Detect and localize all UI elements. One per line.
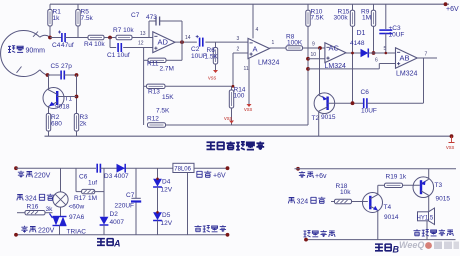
svg-text:1k: 1k: [53, 15, 61, 22]
svg-text:100: 100: [234, 93, 245, 100]
op-amp AB: [396, 48, 418, 68]
svg-text:+6v: +6v: [315, 173, 327, 180]
transistor T2 9015: [314, 93, 335, 114]
wire AD out: [175, 41, 197, 43]
svg-text:10k: 10k: [340, 189, 351, 196]
svg-text:D3 4007: D3 4007: [104, 173, 129, 180]
wire T4 emit down: [377, 211, 379, 240]
resistor R5: [77, 4, 79, 9]
wire: [104, 37, 116, 39]
regulator 78L06: [173, 163, 194, 172]
svg-text:4007: 4007: [110, 219, 125, 226]
wire +6V top rail: [50, 3, 449, 5]
wire speaker down: [426, 221, 428, 240]
wire vss rail mid: [166, 124, 309, 126]
transistor T3 9015: [413, 177, 434, 198]
resistor R14: [231, 86, 233, 90]
wire AB out: [417, 57, 437, 59]
svg-text:6: 6: [375, 58, 378, 64]
antenna loop (90mm): [1, 31, 40, 77]
resistor R6: [215, 42, 217, 47]
wire: [100, 167, 172, 169]
svg-text:C7: C7: [126, 192, 135, 199]
svg-text:LM324: LM324: [258, 60, 280, 67]
svg-text:220V: 220V: [34, 173, 51, 180]
svg-text:300k: 300k: [334, 15, 349, 22]
svg-text:C5: C5: [51, 63, 60, 70]
svg-text:3: 3: [237, 36, 240, 42]
vss below R6: [213, 70, 218, 73]
diode D2 4007: [100, 217, 109, 225]
svg-text:vss: vss: [208, 76, 217, 82]
resistor R18: [331, 201, 335, 203]
capacitor C3: [385, 4, 387, 29]
resistor R13: [147, 84, 166, 88]
svg-text:12: 12: [138, 41, 144, 47]
resistor R4: [88, 35, 104, 39]
svg-text:7: 7: [425, 52, 428, 58]
op-amp AD: [153, 32, 175, 53]
svg-text:AB: AB: [400, 54, 410, 63]
node out+6V: [226, 166, 230, 170]
svg-text:C2: C2: [191, 46, 200, 53]
svg-text:9015: 9015: [436, 196, 451, 203]
wire AB out down: [423, 58, 425, 103]
wire R3col: [76, 75, 78, 114]
resistor R11: [148, 58, 166, 62]
node mains N: [14, 233, 18, 237]
svg-text:9: 9: [312, 42, 315, 48]
resistor R19: [385, 183, 403, 187]
svg-text:WeeQ: WeeQ: [399, 240, 424, 250]
wire to AB-: [368, 52, 395, 54]
svg-text:R19 1k: R19 1k: [386, 174, 407, 181]
resistor R7: [116, 35, 132, 39]
wire AB+ feed: [308, 68, 379, 70]
wire R15 down: [352, 26, 354, 104]
vss below AA: [247, 104, 252, 107]
capacitor C2: [199, 38, 201, 47]
svg-text:AD: AD: [158, 38, 169, 47]
resistor R9: [373, 4, 375, 10]
resistor R12: [148, 123, 166, 127]
resistor R1: [49, 4, 51, 9]
svg-text:9015: 9015: [321, 114, 336, 121]
wire: [48, 74, 62, 76]
svg-text:4148: 4148: [350, 40, 365, 47]
svg-text:97A6: 97A6: [69, 214, 85, 221]
svg-text:C4: C4: [52, 42, 61, 49]
svg-text:R7 10k: R7 10k: [113, 27, 134, 34]
svg-text:11: 11: [244, 66, 249, 72]
svg-text:10: 10: [311, 52, 317, 58]
svg-text:D2: D2: [110, 211, 119, 218]
resistor R8: [286, 46, 303, 50]
svg-text:7.5K: 7.5K: [311, 15, 325, 22]
svg-text:+6V: +6V: [213, 173, 226, 180]
svg-text:T4: T4: [384, 204, 392, 211]
wire B bottom rail: [306, 239, 456, 241]
node A3: [180, 40, 184, 44]
resistor R10: [307, 4, 309, 10]
svg-text:473: 473: [146, 14, 157, 21]
svg-text:4: 4: [256, 27, 259, 33]
wire T2 base: [328, 102, 363, 104]
svg-text:LM324: LM324: [325, 63, 347, 70]
svg-text:12V: 12V: [161, 187, 173, 194]
svg-text:C1: C1: [107, 52, 116, 59]
vss right end: [450, 134, 454, 138]
svg-text:1uf: 1uf: [88, 180, 97, 187]
svg-text:R11: R11: [147, 61, 159, 68]
wire R13: [144, 85, 147, 87]
zener D5 12V: [157, 187, 159, 212]
svg-text:12V: 12V: [161, 220, 173, 227]
svg-text:2: 2: [237, 47, 240, 53]
speaker HY1.5: [418, 212, 429, 221]
node C5L: [46, 73, 50, 77]
wire A top: [16, 167, 96, 169]
svg-text:13: 13: [140, 31, 146, 37]
label to-324-out B: [288, 198, 294, 204]
wire T2 emitter up: [319, 48, 321, 95]
diode D3 4007: [117, 164, 126, 173]
node D1k: [372, 51, 376, 55]
svg-text:3k: 3k: [46, 206, 54, 213]
svg-text:7.5K: 7.5K: [156, 108, 170, 115]
svg-text:2k: 2k: [80, 121, 88, 128]
svg-text:9014: 9014: [384, 214, 399, 221]
pin 11 stub: [248, 59, 250, 104]
op-amp AC: [325, 43, 346, 63]
wire T3 coll down: [428, 195, 430, 212]
wire T1 base: [57, 96, 76, 98]
lamp <60w: [60, 168, 62, 192]
svg-text:C6: C6: [79, 174, 88, 181]
capacitor C4: [61, 33, 63, 42]
wire 78L06 out: [194, 167, 228, 169]
capacitor C7a 220UF: [135, 168, 137, 198]
wire C6 to AB out: [367, 102, 424, 104]
capacitor C7 473 feedback: [148, 21, 150, 38]
resistor R3: [74, 114, 78, 132]
label power +6v: [299, 171, 305, 178]
svg-text:15K: 15K: [162, 94, 174, 101]
label speaker: [414, 229, 421, 235]
svg-text:vss: vss: [244, 107, 253, 113]
wire A bottom rail: [16, 234, 228, 236]
svg-text:R4 10k: R4 10k: [84, 41, 105, 48]
title block B: [375, 244, 383, 251]
wire pin10: [308, 58, 325, 60]
svg-text:220UF: 220UF: [115, 203, 135, 210]
node A1: [48, 36, 52, 40]
node bus2: [306, 67, 310, 71]
transistor T1 9018: [43, 88, 64, 109]
svg-text:324: 324: [25, 196, 37, 203]
svg-text:680: 680: [51, 121, 62, 128]
label out-neg: [195, 225, 202, 231]
wire gnd rail: [45, 135, 452, 137]
diode D1 4148: [361, 49, 369, 58]
svg-text:R17: R17: [74, 195, 86, 202]
wire T2 collector down: [318, 112, 320, 137]
svg-text:<60w: <60w: [69, 204, 85, 211]
node T2e: [318, 46, 322, 50]
node T1b: [75, 95, 79, 99]
wire: [50, 37, 62, 39]
svg-text:90mm: 90mm: [26, 48, 46, 55]
svg-text:C7: C7: [131, 12, 140, 19]
svg-text:78L06: 78L06: [174, 166, 191, 172]
label diameter 90mm: [33, 32, 38, 37]
svg-text:1M: 1M: [362, 15, 371, 22]
transistor T4 9014: [363, 193, 383, 213]
wire R9 down: [373, 26, 375, 53]
svg-text:D4: D4: [162, 179, 171, 186]
wire to pin12: [123, 47, 153, 49]
svg-text:1.5K: 1.5K: [205, 54, 219, 61]
svg-text:2.7M: 2.7M: [160, 66, 174, 73]
svg-text:HY1.5: HY1.5: [417, 216, 434, 222]
wire AA out: [270, 47, 287, 49]
svg-text:A: A: [253, 45, 258, 54]
wire to pin13: [132, 37, 153, 39]
label out +6V: [197, 171, 202, 177]
label power neg: [304, 230, 311, 236]
svg-text:R13: R13: [148, 89, 160, 96]
op-amp AA: [248, 38, 270, 58]
svg-text:A: A: [113, 239, 121, 249]
node out neg: [226, 233, 230, 237]
svg-text:T3: T3: [435, 182, 443, 189]
label input 220V top: [18, 171, 24, 178]
wire T4 coll up: [377, 185, 379, 194]
wire T3 emit up: [428, 169, 430, 179]
capacitor C1: [117, 43, 119, 52]
triac 97A6: [53, 216, 67, 218]
wire lamp-triac: [60, 207, 62, 216]
wire pin2 stub: [233, 52, 248, 54]
svg-text:R16: R16: [27, 204, 39, 211]
svg-text:vss: vss: [446, 145, 455, 151]
wire T1 coll up: [48, 75, 50, 90]
wire: [65, 37, 88, 39]
node mains L: [14, 166, 18, 170]
wire to pin9: [303, 47, 325, 49]
pin 4 stub: [252, 4, 254, 38]
svg-text:D5: D5: [162, 212, 171, 219]
wire R19 to T3: [403, 184, 420, 186]
resistor R16 3k: [17, 212, 25, 214]
node B gnd: [304, 238, 308, 242]
svg-text:100K: 100K: [287, 40, 303, 47]
wire R11 branch: [181, 42, 183, 60]
svg-text:14: 14: [185, 35, 191, 41]
svg-text:+6V: +6V: [446, 6, 459, 13]
svg-text:9018: 9018: [55, 104, 70, 111]
wire R11-left bus: [144, 59, 148, 61]
svg-text:7.5k: 7.5k: [81, 15, 94, 22]
label to-324-out: [17, 195, 23, 201]
zener D4 12V: [157, 168, 159, 179]
capacitor C5: [60, 71, 62, 80]
resistor R2: [46, 114, 50, 132]
capacitor C6: [363, 98, 365, 108]
svg-text:C6: C6: [361, 89, 370, 96]
node T2b: [351, 101, 355, 105]
wire R10 bus: [307, 26, 309, 125]
wire C1 branch: [109, 38, 111, 48]
svg-text:324: 324: [297, 199, 309, 206]
svg-text:AC: AC: [329, 44, 340, 53]
svg-text:10uf: 10uf: [117, 52, 130, 59]
wire: [205, 41, 248, 43]
node A2: [108, 36, 112, 40]
svg-text:D1: D1: [357, 30, 366, 37]
wire: [64, 74, 76, 76]
wire T1 emit down: [48, 106, 50, 114]
svg-text:27p: 27p: [61, 63, 72, 70]
wire 78L06 gnd: [187, 173, 189, 235]
node B+6v: [296, 167, 300, 171]
svg-text:10UF: 10UF: [361, 108, 377, 115]
node p10: [306, 57, 310, 61]
node C5R: [75, 73, 79, 77]
wire B top: [295, 168, 457, 170]
svg-text:47uf: 47uf: [61, 42, 74, 49]
svg-text:10UF: 10UF: [389, 32, 405, 39]
node +6V: [444, 2, 448, 6]
resistor R17 1M: [75, 168, 77, 191]
title block A: [97, 239, 105, 246]
svg-text:1: 1: [272, 40, 275, 46]
label input 220V bottom: [21, 226, 27, 233]
wire D2 col: [103, 168, 105, 217]
title top block: [207, 142, 216, 149]
svg-text:R12: R12: [147, 116, 159, 123]
wire AC out: [346, 52, 361, 54]
capacitor C6a 1uf: [96, 164, 98, 173]
resistor R15: [352, 4, 354, 10]
svg-text:LM324: LM324: [396, 71, 418, 78]
svg-text:vss: vss: [224, 116, 233, 122]
svg-text:1M: 1M: [88, 195, 97, 202]
vss at R14: [229, 121, 234, 124]
svg-text:220V: 220V: [38, 228, 55, 235]
